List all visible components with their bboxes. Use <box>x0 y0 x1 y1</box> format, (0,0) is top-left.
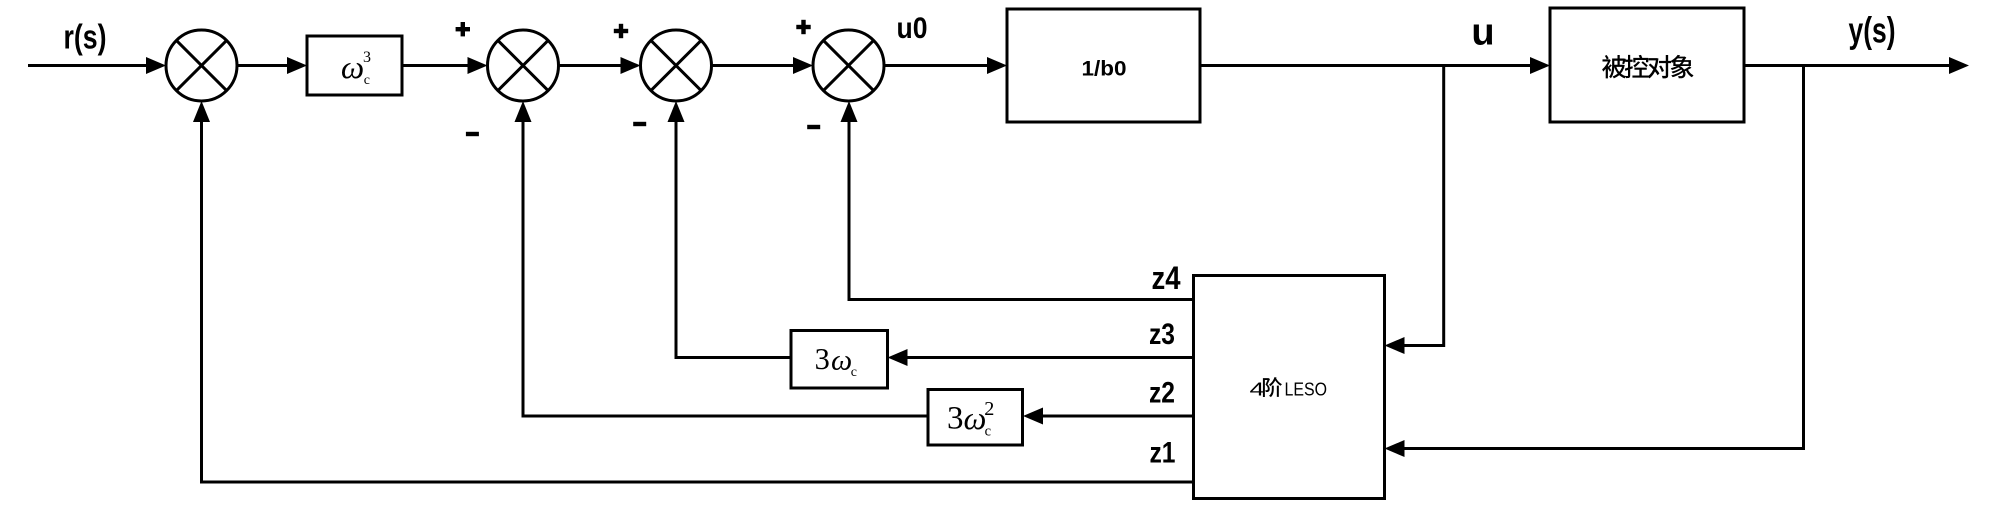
wire: z1 feedback from LESO to S1 <box>193 101 1194 482</box>
wire: 3wc^2 output to S2 <box>515 101 929 416</box>
svg-text:c: c <box>851 365 857 380</box>
minus sign at S3 <box>633 122 646 126</box>
plus sign at S4 <box>796 20 810 34</box>
svg-text:LESO: LESO <box>1285 379 1328 400</box>
gain block 1/b0 <box>1007 9 1200 122</box>
wire: u branch down into LESO <box>1385 66 1444 355</box>
plus sign at S2 <box>456 22 470 36</box>
svg-text:y(s): y(s) <box>1849 9 1896 50</box>
svg-text:3: 3 <box>815 342 830 376</box>
svg-text:c: c <box>364 73 370 88</box>
plant block (controlled object) <box>1550 8 1744 122</box>
summing junction S3 <box>641 30 712 101</box>
svg-text:u: u <box>1471 12 1494 54</box>
minus sign at S4 <box>807 125 820 129</box>
svg-text:ω: ω <box>831 343 852 376</box>
svg-text:z2: z2 <box>1149 377 1175 410</box>
svg-text:3: 3 <box>363 49 371 66</box>
svg-text:z3: z3 <box>1149 318 1175 351</box>
svg-text:2: 2 <box>984 398 994 420</box>
wire: z3 feedback from LESO into gain 3wc <box>888 349 1194 366</box>
svg-text:r(s): r(s) <box>64 19 107 57</box>
summing junction S4 <box>813 30 884 101</box>
LESO block (4th order LESO) <box>1194 276 1385 499</box>
svg-text:4: 4 <box>1250 380 1265 400</box>
gain block 3wc^2 <box>928 390 1023 446</box>
svg-text:u0: u0 <box>897 12 928 45</box>
summing junction S1 <box>166 30 237 101</box>
wire: z4 feedback from LESO to S4 <box>841 101 1194 300</box>
wire: 3wc output to S3 <box>668 101 792 358</box>
gain block wc^3 <box>307 36 402 95</box>
svg-text:z1: z1 <box>1150 437 1176 470</box>
svg-text:c: c <box>985 424 991 440</box>
wire: y branch down into LESO <box>1385 66 1804 458</box>
wire: S1 to gain block wc^3 <box>237 57 307 74</box>
wire: S2 to summing junction S3 <box>559 57 641 74</box>
svg-text:1/b0: 1/b0 <box>1082 58 1127 81</box>
plus sign at S3 <box>614 24 628 38</box>
wire: plant output y(s) <box>1744 57 1969 74</box>
wire: S4 to gain block 1/b0, node u0 <box>884 57 1007 74</box>
wire: wc^3 block to summing junction S2 <box>402 57 488 74</box>
wire: z2 feedback from LESO into gain 3wc^2 <box>1023 408 1194 425</box>
minus sign at S2 <box>466 132 479 136</box>
wire: input r(s) into summing junction S1 <box>28 57 166 74</box>
svg-text:3: 3 <box>947 401 964 437</box>
summing junction S2 <box>488 30 559 101</box>
wire: 1/b0 to plant block, node u <box>1200 57 1550 74</box>
svg-text:ω: ω <box>341 50 364 86</box>
wire: S3 to summing junction S4 <box>712 57 814 74</box>
svg-text:ω: ω <box>964 401 987 437</box>
gain block 3wc <box>791 331 888 389</box>
svg-text:z4: z4 <box>1152 260 1181 296</box>
